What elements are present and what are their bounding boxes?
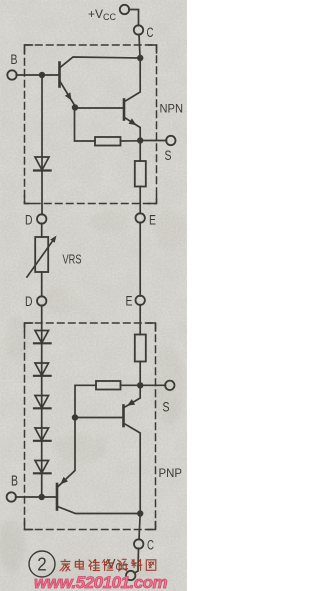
svg-text:D: D	[25, 213, 33, 228]
node S junction (bottom)	[137, 382, 143, 388]
svg-text:E: E	[126, 294, 133, 309]
node S junction (top)	[137, 137, 143, 143]
wire B to base node	[16, 74, 42, 76]
transistor Q4 emitter arrow	[60, 477, 68, 485]
wire	[41, 441, 43, 473]
wire diode chain to base node	[41, 473, 43, 497]
transistor Q3 base bar	[122, 406, 125, 427]
transistor Q4 base bar	[56, 484, 59, 510]
diode D5 cathode bar	[34, 440, 51, 442]
diode D4	[35, 396, 49, 409]
svg-text:NPN: NPN	[160, 104, 184, 116]
NPN box corner ticks	[25, 45, 157, 204]
PNP dashed box	[25, 323, 156, 530]
terminal D (lower)	[37, 296, 46, 305]
diode D5	[35, 428, 49, 441]
transistor Q1 emitter arrow	[65, 92, 72, 100]
node base/diode junction	[39, 72, 45, 78]
+Vcc terminal	[120, 5, 129, 14]
transistor Q3 collector	[124, 424, 140, 514]
wire VRS to D terminal (lower)	[41, 272, 43, 297]
svg-text:E: E	[149, 213, 156, 228]
wire junction to C terminal (bottom)	[139, 514, 140, 540]
diode D2 cathode bar	[34, 342, 51, 344]
wire diode D1 to D terminal	[41, 171, 43, 215]
transistor Q1 base bar	[58, 63, 61, 87]
rheostat VRS arrow	[27, 239, 54, 277]
terminal B (bottom)	[7, 492, 16, 501]
wire base node to diode D1	[41, 75, 43, 170]
svg-text:D: D	[25, 294, 33, 309]
diode D4 cathode bar	[34, 407, 51, 409]
resistor R4	[135, 335, 146, 362]
NPN dashed box	[25, 45, 157, 204]
transistor Q3 emitter	[124, 388, 140, 408]
terminal C (top)	[134, 25, 143, 34]
wire R1 to S node	[121, 140, 141, 142]
node collector junction (bottom)	[137, 510, 143, 516]
resistor R1	[95, 137, 121, 146]
node collector-rail junction	[137, 55, 143, 61]
diode D6	[35, 461, 49, 474]
svg-text:B: B	[11, 474, 18, 490]
svg-text:C: C	[147, 538, 154, 553]
PNP box corner ticks	[25, 323, 156, 530]
wire R4 to S node	[139, 362, 141, 386]
wire	[41, 408, 43, 440]
svg-text:VRS: VRS	[63, 253, 82, 267]
wire Q1 emitter to Q2 base	[75, 107, 123, 109]
transistor Q2 base bar	[123, 100, 126, 120]
wire B to base node (bottom)	[16, 496, 42, 498]
terminal B (top)	[7, 70, 16, 79]
transistor Q4 collector	[58, 507, 141, 514]
wire E to R4	[139, 305, 141, 335]
terminal S (top)	[166, 136, 175, 145]
wire junction to S terminal (bottom)	[140, 384, 165, 386]
terminal E (top)	[136, 213, 145, 222]
resistor R3	[96, 381, 121, 390]
transistor Q1 emitter	[60, 82, 75, 107]
svg-text:PNP: PNP	[159, 468, 183, 480]
node Q1 emitter junction	[72, 104, 78, 110]
rheostat VRS arrowhead	[50, 236, 56, 243]
wire	[41, 343, 43, 375]
wire R3 to S node (bottom)	[121, 384, 141, 386]
terminal S (bottom)	[165, 381, 174, 390]
transistor Q2 emitter arrow	[129, 118, 137, 125]
wire C to collector rail	[139, 34, 140, 57]
wire C to -Vcc	[135, 548, 139, 573]
transistor Q2 collector	[125, 58, 141, 102]
wire D to diode chain	[41, 305, 43, 343]
wire S node to R2	[139, 141, 141, 162]
svg-text:2: 2	[37, 555, 47, 575]
faint page stains	[0, 210, 184, 586]
wire Vcc to C	[129, 10, 139, 26]
paper background	[0, 0, 187, 591]
transistor Q2 emitter	[125, 118, 141, 139]
terminal D (upper)	[37, 214, 46, 223]
terminal E (lower)	[136, 296, 145, 305]
svg-text:C: C	[147, 25, 154, 40]
diode D1	[35, 157, 49, 170]
resistor R2	[135, 161, 146, 187]
wire D terminal to VRS	[41, 223, 43, 237]
svg-text:S: S	[165, 148, 172, 163]
svg-text:B: B	[11, 52, 18, 67]
diode D3	[35, 363, 49, 376]
wire junction to S terminal	[140, 140, 166, 142]
figure number circle	[29, 551, 55, 577]
node base/diode junction (bottom)	[39, 494, 45, 500]
wire	[41, 376, 43, 408]
svg-text:S: S	[163, 400, 170, 415]
wire base node to Q1	[42, 74, 59, 76]
diode D6 cathode bar	[34, 472, 51, 474]
diode D3 cathode bar	[34, 375, 51, 377]
svg-text:www.520101.com: www.520101.com	[34, 573, 168, 591]
watermark line 1	[60, 559, 156, 571]
rheostat VRS body	[35, 237, 48, 272]
diode D1 cathode bar	[34, 169, 51, 171]
diode D2	[35, 331, 49, 344]
terminal C (bottom)	[134, 539, 143, 548]
wire Q4 emitter to Q3 base	[75, 417, 122, 419]
terminal -Vcc	[126, 571, 135, 580]
wire R2 to E terminal	[139, 187, 141, 214]
wire base node to Q4	[42, 496, 56, 498]
node Q4 emitter junction	[72, 414, 78, 420]
wire Q4 node to R3	[75, 385, 96, 417]
transistor Q4 emitter	[58, 420, 76, 487]
wire E to E	[139, 222, 141, 296]
transistor Q3 emitter arrow	[127, 399, 135, 406]
wire Q1 emitter to R1	[75, 108, 96, 141]
transistor Q1 collector	[60, 57, 140, 68]
